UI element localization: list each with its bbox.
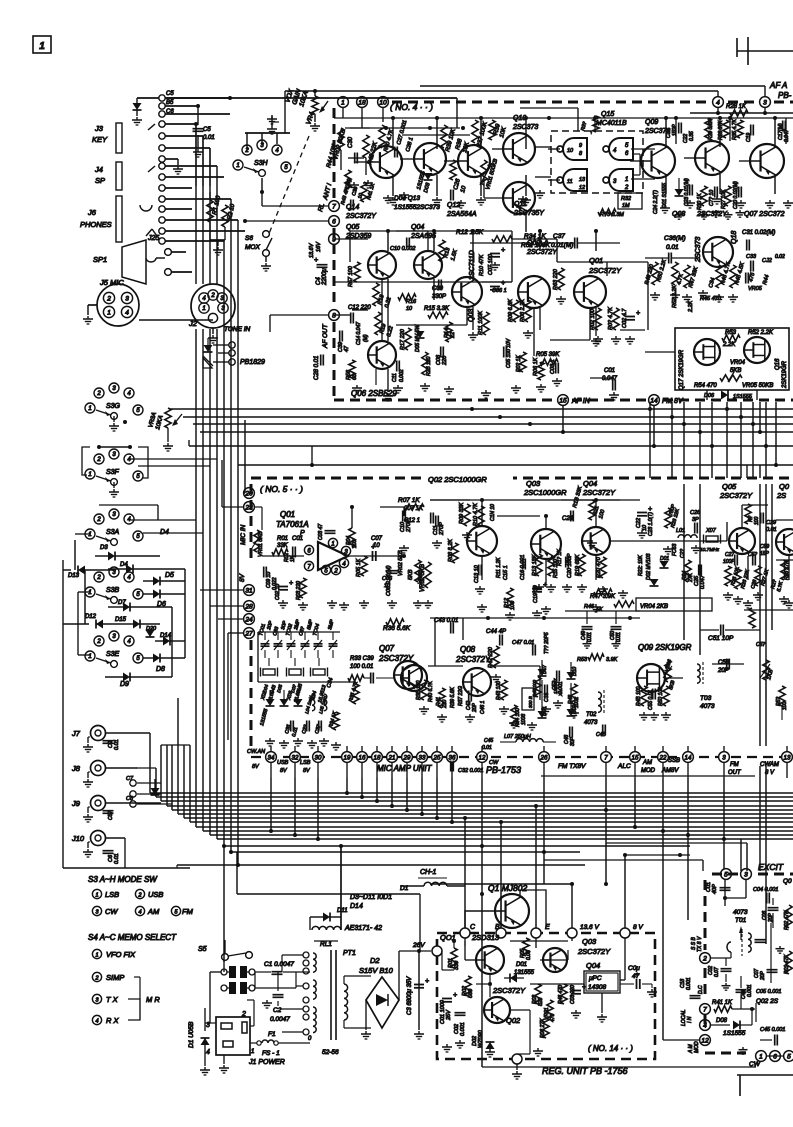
svg-text:AM: AM xyxy=(147,907,160,916)
svg-text:S3 A~H MODE SW: S3 A~H MODE SW xyxy=(88,875,158,884)
svg-text:R10 4.7K: R10 4.7K xyxy=(473,503,479,526)
svg-text:C31 0.02(M): C31 0.02(M) xyxy=(742,230,775,236)
svg-text:Q04: Q04 xyxy=(586,961,600,970)
svg-text:TA7061A: TA7061A xyxy=(276,520,309,529)
svg-text:52-56: 52-56 xyxy=(322,1049,339,1056)
svg-text:5KB: 5KB xyxy=(408,569,414,580)
svg-text:B: B xyxy=(495,924,500,931)
svg-text:207 1K: 207 1K xyxy=(403,506,424,512)
svg-text:20: 20 xyxy=(244,490,253,497)
svg-text:4: 4 xyxy=(716,99,720,106)
svg-text:R42 220: R42 220 xyxy=(488,646,494,668)
svg-text:R09 6.8K: R09 6.8K xyxy=(508,299,514,322)
svg-text:FM 8V: FM 8V xyxy=(662,398,684,405)
svg-text:MIC AMP UNIT: MIC AMP UNIT xyxy=(377,764,433,773)
svg-text:1M: 1M xyxy=(622,203,630,209)
svg-text:R11 1.2K: R11 1.2K xyxy=(496,557,502,578)
svg-text:J6: J6 xyxy=(87,208,97,217)
svg-text:Q04: Q04 xyxy=(411,224,424,231)
svg-text:D02 MV103: D02 MV103 xyxy=(646,553,652,580)
svg-text:WZ090: WZ090 xyxy=(478,1029,484,1048)
svg-text:C56: C56 xyxy=(718,660,730,666)
svg-text:5: 5 xyxy=(787,1053,791,1060)
svg-text:C6: C6 xyxy=(166,109,174,115)
svg-text:18: 18 xyxy=(358,99,366,106)
svg-text:2: 2 xyxy=(96,391,101,397)
svg-text:C30: C30 xyxy=(348,136,354,148)
svg-text:J25: J25 xyxy=(147,235,159,242)
svg-text:CJ2: CJ2 xyxy=(762,258,772,264)
svg-text:D12: D12 xyxy=(85,614,97,620)
svg-text:19: 19 xyxy=(344,754,351,761)
svg-text:C36(M): C36(M) xyxy=(664,235,686,242)
svg-text:14: 14 xyxy=(650,397,658,404)
svg-text:2.2K: 2.2K xyxy=(688,300,694,313)
svg-text:2SC372Y: 2SC372Y xyxy=(345,213,377,220)
svg-text:MC4011B: MC4011B xyxy=(596,120,627,127)
svg-text:D07: D07 xyxy=(542,665,548,674)
svg-text:C15 1: C15 1 xyxy=(503,565,509,580)
svg-text:2: 2 xyxy=(96,457,101,463)
svg-text:TX 8 V: TX 8 V xyxy=(697,936,703,952)
svg-text:C2: C2 xyxy=(273,1007,282,1014)
svg-text:LSB: LSB xyxy=(105,890,119,899)
svg-text:Q08: Q08 xyxy=(460,645,476,654)
svg-text:0.047: 0.047 xyxy=(700,574,706,589)
svg-text:2SC1000GR: 2SC1000GR xyxy=(523,488,567,497)
svg-text:EXCIT: EXCIT xyxy=(758,862,784,872)
svg-text:C11: C11 xyxy=(392,373,398,382)
svg-text:1: 1 xyxy=(759,1053,763,1060)
svg-text:1: 1 xyxy=(39,41,45,52)
svg-text:8 V: 8 V xyxy=(633,924,643,931)
svg-text:2SC372Y: 2SC372Y xyxy=(492,986,526,995)
svg-text:R12 1.5K: R12 1.5K xyxy=(456,229,484,236)
svg-text:3: 3 xyxy=(763,99,767,106)
svg-text:C1N 10: C1N 10 xyxy=(490,504,496,521)
svg-text:CW.AN: CW.AN xyxy=(247,749,265,755)
svg-text:C01: C01 xyxy=(292,536,303,542)
svg-text:D01 S1555: D01 S1555 xyxy=(662,183,668,208)
svg-text:10.7MHz: 10.7MHz xyxy=(700,547,720,553)
svg-text:2SC373: 2SC373 xyxy=(695,237,702,263)
svg-text:23: 23 xyxy=(244,504,253,511)
svg-text:R33 C39: R33 C39 xyxy=(350,656,374,662)
svg-text:1S1555: 1S1555 xyxy=(723,1030,746,1037)
svg-text:15P: 15P xyxy=(760,551,770,557)
svg-text:2: 2 xyxy=(702,955,707,962)
svg-text:0.01: 0.01 xyxy=(587,632,593,642)
svg-text:C07: C07 xyxy=(371,536,383,542)
svg-text:AM8V: AM8V xyxy=(661,768,679,774)
svg-text:MOX: MOX xyxy=(245,244,260,251)
svg-text:LSB: LSB xyxy=(300,760,311,766)
svg-text:2SC373: 2SC373 xyxy=(512,124,538,131)
svg-text:4073: 4073 xyxy=(733,909,748,916)
svg-text:31: 31 xyxy=(245,587,253,594)
svg-text:0.001: 0.001 xyxy=(460,1022,466,1036)
svg-text:4073: 4073 xyxy=(584,720,598,726)
svg-text:Q04: Q04 xyxy=(583,479,597,488)
svg-text:1: 1 xyxy=(251,1049,254,1055)
svg-text:D11: D11 xyxy=(337,908,348,914)
svg-text:FC63: FC63 xyxy=(672,544,678,556)
svg-text:15: 15 xyxy=(632,754,639,761)
svg-text:13: 13 xyxy=(784,754,791,761)
svg-text:R57 100: R57 100 xyxy=(348,265,354,287)
svg-text:Q03: Q03 xyxy=(526,479,541,488)
svg-text:Q0: Q0 xyxy=(779,482,790,491)
svg-text:SIMP: SIMP xyxy=(106,973,124,982)
svg-text:8: 8 xyxy=(332,312,336,319)
svg-text:C32 0.001: C32 0.001 xyxy=(458,768,483,774)
svg-text:2: 2 xyxy=(333,568,338,574)
svg-text:(M): (M) xyxy=(363,334,369,342)
svg-text:1: 1 xyxy=(88,406,91,412)
svg-text:SP: SP xyxy=(95,176,105,185)
svg-text:4: 4 xyxy=(703,1022,707,1029)
svg-text:0.0047: 0.0047 xyxy=(270,1016,290,1023)
svg-text:+: + xyxy=(453,992,457,999)
svg-text:1: 1 xyxy=(341,99,345,106)
svg-text:6: 6 xyxy=(332,218,336,225)
svg-text:3: 3 xyxy=(125,295,129,302)
svg-text:4: 4 xyxy=(95,1018,98,1024)
svg-text:Q16: Q16 xyxy=(775,358,781,370)
svg-text:( NO. 4 · · ): ( NO. 4 · · ) xyxy=(390,102,433,112)
svg-text:D3~D11 I0D1: D3~D11 I0D1 xyxy=(350,894,392,901)
svg-text:3: 3 xyxy=(722,754,726,761)
svg-text:2: 2 xyxy=(96,575,101,581)
svg-text:S3B: S3B xyxy=(106,587,120,594)
svg-text:C29: C29 xyxy=(766,520,776,526)
svg-text:R54 470: R54 470 xyxy=(694,383,717,389)
svg-text:13: 13 xyxy=(579,177,586,183)
svg-text:34: 34 xyxy=(268,754,275,761)
svg-text:C44 4P: C44 4P xyxy=(486,629,506,635)
svg-text:FM: FM xyxy=(730,762,739,768)
svg-text:R2B 120: R2B 120 xyxy=(426,356,432,376)
svg-text:J7: J7 xyxy=(71,729,81,738)
svg-text:11: 11 xyxy=(567,179,573,185)
svg-text:R15 100: R15 100 xyxy=(553,559,559,578)
svg-text:C06: C06 xyxy=(382,576,393,582)
svg-text:8V: 8V xyxy=(239,573,246,582)
svg-text:R3B 100: R3B 100 xyxy=(416,680,422,700)
svg-text:2: 2 xyxy=(94,975,98,981)
svg-text:S3F: S3F xyxy=(106,469,120,476)
svg-text:30P: 30P xyxy=(570,736,576,746)
svg-text:2: 2 xyxy=(106,295,111,302)
svg-text:0.35: 0.35 xyxy=(689,131,695,141)
svg-text:R08 8.2K: R08 8.2K xyxy=(448,539,454,562)
svg-text:D05 MV-5W: D05 MV-5W xyxy=(415,324,421,352)
svg-text:C14 0.047: C14 0.047 xyxy=(356,322,362,345)
svg-text:PB-: PB- xyxy=(778,91,792,100)
svg-text:2: 2 xyxy=(137,892,141,898)
svg-text:MIC IN: MIC IN xyxy=(240,524,247,545)
svg-text:C45 0.001: C45 0.001 xyxy=(760,1027,785,1033)
svg-text:13.6V: 13.6V xyxy=(309,242,315,258)
svg-text:C2?: C2? xyxy=(680,549,686,558)
svg-text:1008: 1008 xyxy=(521,714,527,725)
svg-text:1: 1 xyxy=(236,163,239,169)
svg-text:1: 1 xyxy=(202,306,205,312)
svg-text:0.01: 0.01 xyxy=(666,244,679,251)
svg-text:VR05 50KB: VR05 50KB xyxy=(742,383,773,389)
svg-text:VR02 5KB: VR02 5KB xyxy=(398,550,404,576)
svg-text:C5: C5 xyxy=(203,127,211,133)
svg-text:6: 6 xyxy=(773,1053,777,1060)
svg-text:S6: S6 xyxy=(245,235,253,242)
svg-text:D14: D14 xyxy=(350,903,363,910)
svg-text:40P: 40P xyxy=(712,884,718,894)
svg-text:7: 7 xyxy=(703,1006,707,1013)
svg-text:1: 1 xyxy=(331,541,334,547)
svg-text:10: 10 xyxy=(406,306,413,312)
svg-text:S15V B10: S15V B10 xyxy=(359,966,394,975)
svg-text:Q02 2SC1000GR: Q02 2SC1000GR xyxy=(428,475,487,484)
svg-text:D01: D01 xyxy=(516,962,527,968)
svg-text:100: 100 xyxy=(754,516,760,525)
svg-text:C43 0.01: C43 0.01 xyxy=(434,618,458,624)
svg-text:C51 10P: C51 10P xyxy=(708,635,734,642)
svg-text:S3H: S3H xyxy=(254,160,269,167)
svg-text:0.001: 0.001 xyxy=(686,977,692,990)
svg-text:F1: F1 xyxy=(268,1031,276,1038)
svg-text:25V: 25V xyxy=(446,1009,452,1021)
svg-text:0.07: 0.07 xyxy=(714,967,720,977)
svg-text:SP1: SP1 xyxy=(93,255,107,264)
svg-text:D1 U05B: D1 U05B xyxy=(188,1021,195,1048)
svg-text:R52 2.2K: R52 2.2K xyxy=(672,285,678,308)
svg-text:R52 2.2K: R52 2.2K xyxy=(748,330,774,336)
svg-text:2SC735Y: 2SC735Y xyxy=(513,210,545,217)
svg-text:μPC: μPC xyxy=(588,975,602,982)
svg-text:R41 1K: R41 1K xyxy=(712,1000,733,1006)
svg-text:2: 2 xyxy=(96,639,101,645)
svg-text:Q0: Q0 xyxy=(783,878,792,885)
svg-text:X07: X07 xyxy=(705,528,717,534)
svg-text:C12 1: C12 1 xyxy=(404,518,420,524)
svg-text:VFO FIX: VFO FIX xyxy=(106,950,136,959)
svg-text:5KB: 5KB xyxy=(730,368,741,374)
svg-text:USB: USB xyxy=(148,890,163,899)
svg-text:VR05: VR05 xyxy=(748,286,763,292)
svg-text:C45: C45 xyxy=(484,738,493,744)
svg-text:Q02: Q02 xyxy=(506,1016,521,1025)
svg-text:FM TX8V: FM TX8V xyxy=(558,763,586,770)
svg-text:VR04: VR04 xyxy=(730,360,746,366)
svg-text:SSB: SSB xyxy=(668,758,680,764)
svg-text:26V: 26V xyxy=(412,942,425,949)
svg-text:FS - 1: FS - 1 xyxy=(262,1050,280,1057)
svg-text:S3A: S3A xyxy=(106,529,120,536)
svg-text:C04 0.001: C04 0.001 xyxy=(753,887,778,893)
svg-text:R09 33K: R09 33K xyxy=(459,502,465,524)
svg-text:5: 5 xyxy=(724,871,728,878)
svg-text:R63 220: R63 220 xyxy=(553,268,559,290)
svg-text:+: + xyxy=(289,580,293,587)
svg-text:32: 32 xyxy=(292,754,299,761)
svg-text:2SC372Y: 2SC372Y xyxy=(526,249,558,256)
svg-text:18: 18 xyxy=(374,754,381,761)
svg-text:Q02: Q02 xyxy=(527,240,540,247)
svg-text:R30 1K: R30 1K xyxy=(697,193,703,210)
svg-text:R47 3.9K: R47 3.9K xyxy=(590,594,616,600)
svg-text:I N: I N xyxy=(687,1016,693,1023)
svg-text:2.2K: 2.2K xyxy=(722,342,736,348)
svg-text:2SA564A: 2SA564A xyxy=(446,211,477,218)
svg-text:15: 15 xyxy=(559,397,567,404)
svg-text:R01: R01 xyxy=(277,536,288,542)
svg-text:D5: D5 xyxy=(165,572,174,579)
svg-text:Q07 2SC372: Q07 2SC372 xyxy=(744,211,785,218)
svg-text:20P: 20P xyxy=(472,702,478,713)
svg-text:150P: 150P xyxy=(672,124,678,136)
svg-text:29: 29 xyxy=(403,754,411,761)
svg-text:J10: J10 xyxy=(71,834,85,843)
svg-text:10: 10 xyxy=(384,583,391,589)
svg-text:Q17 2SK19GR: Q17 2SK19GR xyxy=(679,349,685,390)
svg-text:0.001: 0.001 xyxy=(558,681,564,694)
svg-text:D.C: D.C xyxy=(698,985,704,994)
svg-text:PHONES: PHONES xyxy=(80,220,112,229)
svg-text:C05 0.001: C05 0.001 xyxy=(756,989,781,995)
svg-text:AF OUT: AF OUT xyxy=(322,323,329,349)
svg-text:2S: 2S xyxy=(776,491,786,500)
svg-text:2SC372Y: 2SC372Y xyxy=(588,266,622,275)
svg-text:C5?: C5? xyxy=(108,811,114,820)
svg-text:100 0.01: 100 0.01 xyxy=(350,664,373,670)
svg-text:36: 36 xyxy=(449,754,456,761)
svg-text:D8: D8 xyxy=(156,666,165,673)
svg-text:+: + xyxy=(425,978,429,985)
svg-text:FM: FM xyxy=(182,907,194,916)
svg-text:21: 21 xyxy=(388,754,396,761)
svg-text:Q03: Q03 xyxy=(468,309,475,322)
svg-text:3P: 3P xyxy=(692,517,699,523)
svg-text:2SK19GR: 2SK19GR xyxy=(782,360,788,389)
svg-text:25: 25 xyxy=(433,754,441,761)
svg-text:+: + xyxy=(501,247,505,254)
svg-text:26: 26 xyxy=(540,754,548,761)
svg-text:Q1 MJ802: Q1 MJ802 xyxy=(488,883,527,893)
svg-text:R40 6.?K: R40 6.?K xyxy=(428,680,434,702)
svg-text:30: 30 xyxy=(315,754,322,761)
svg-text:C02 4.7: C02 4.7 xyxy=(622,308,628,328)
svg-text:B5: B5 xyxy=(166,100,174,106)
svg-text:C0μ: C0μ xyxy=(628,965,640,972)
svg-text:C23 1.0(T): C23 1.0(T) xyxy=(648,512,654,536)
svg-text:9: 9 xyxy=(332,236,336,243)
svg-text:10: 10 xyxy=(567,148,574,154)
svg-text:16V: 16V xyxy=(316,241,322,252)
svg-text:0.01: 0.01 xyxy=(114,853,120,864)
svg-text:R50 100: R50 100 xyxy=(658,687,664,706)
svg-text:0.001: 0.001 xyxy=(747,984,753,997)
svg-text:2SA695: 2SA695 xyxy=(410,233,436,240)
svg-text:2SC372Y: 2SC372Y xyxy=(455,655,491,664)
svg-text:33: 33 xyxy=(419,754,426,761)
svg-text:+: + xyxy=(635,972,639,979)
svg-text:+: + xyxy=(582,984,586,991)
svg-text:3.9K: 3.9K xyxy=(606,657,618,663)
svg-text:J4: J4 xyxy=(94,165,103,174)
svg-text:S3G: S3G xyxy=(106,403,121,410)
svg-text:9: 9 xyxy=(579,143,582,149)
svg-text:D15: D15 xyxy=(115,617,127,623)
svg-text:+: + xyxy=(636,310,640,317)
svg-text:R11 100K: R11 100K xyxy=(478,311,484,335)
svg-text:S3E: S3E xyxy=(106,651,120,658)
svg-text:R4B 100: R4B 100 xyxy=(636,686,642,706)
svg-text:D06: D06 xyxy=(704,393,715,399)
svg-text:12: 12 xyxy=(479,754,486,761)
svg-text:1S15552SC373: 1S15552SC373 xyxy=(394,204,440,211)
svg-text:T01: T01 xyxy=(735,917,747,924)
svg-text:+: + xyxy=(371,544,375,551)
svg-text:D10: D10 xyxy=(572,667,578,676)
svg-text:T?? 20P5: T?? 20P5 xyxy=(544,632,550,654)
svg-text:1: 1 xyxy=(88,472,91,478)
svg-text:R43 100: R43 100 xyxy=(496,681,502,700)
svg-text:4: 4 xyxy=(206,1049,210,1056)
svg-text:C27: C27 xyxy=(725,552,734,558)
svg-text:R0? 4.7K: R0? 4.7K xyxy=(608,307,614,330)
svg-text:ALC: ALC xyxy=(617,763,631,770)
svg-text:2: 2 xyxy=(624,185,629,191)
svg-text:CWAM: CWAM xyxy=(760,762,779,768)
svg-text:S5: S5 xyxy=(198,946,207,953)
svg-text:T02: T02 xyxy=(586,712,597,718)
svg-text:OUT: OUT xyxy=(728,770,742,776)
svg-text:2: 2 xyxy=(210,293,215,299)
svg-text:4: 4 xyxy=(125,309,129,316)
svg-text:R17 220: R17 220 xyxy=(400,328,406,350)
svg-text:S4 A~C MEMO SELECT: S4 A~C MEMO SELECT xyxy=(88,933,177,942)
svg-text:J3: J3 xyxy=(94,124,104,133)
svg-text:C46 1: C46 1 xyxy=(480,700,486,714)
svg-text:R10 47K: R10 47K xyxy=(479,254,485,276)
svg-text:20P: 20P xyxy=(760,970,766,981)
svg-text:2: 2 xyxy=(96,517,101,523)
svg-text:C33: C33 xyxy=(746,254,757,260)
svg-text:C24: C24 xyxy=(562,516,574,522)
svg-text:1: 1 xyxy=(107,309,111,316)
svg-text:2SC372Y: 2SC372Y xyxy=(577,947,611,956)
svg-text:2SD313: 2SD313 xyxy=(471,933,500,942)
svg-text:Q02 2S: Q02 2S xyxy=(756,998,779,1005)
svg-text:AM: AM xyxy=(642,760,652,766)
svg-text:1: 1 xyxy=(625,177,628,183)
svg-text:USB: USB xyxy=(277,760,289,766)
svg-text:300 B: 300 B xyxy=(528,696,533,708)
svg-text:R37 22G: R37 22G xyxy=(458,686,464,706)
svg-text:T X: T X xyxy=(106,995,119,1004)
svg-text:0.02: 0.02 xyxy=(775,254,785,260)
svg-text:Q01: Q01 xyxy=(589,256,603,265)
svg-text:Q07: Q07 xyxy=(379,644,395,653)
svg-text:27: 27 xyxy=(244,630,253,637)
svg-text:C01: C01 xyxy=(604,368,615,374)
svg-text:4073: 4073 xyxy=(700,703,715,710)
svg-text:R28 1K: R28 1K xyxy=(726,104,747,110)
svg-text:12: 12 xyxy=(701,1037,709,1044)
svg-text:R X: R X xyxy=(106,1016,120,1025)
svg-text:1: 1 xyxy=(88,590,91,596)
svg-text:131555: 131555 xyxy=(514,970,535,976)
